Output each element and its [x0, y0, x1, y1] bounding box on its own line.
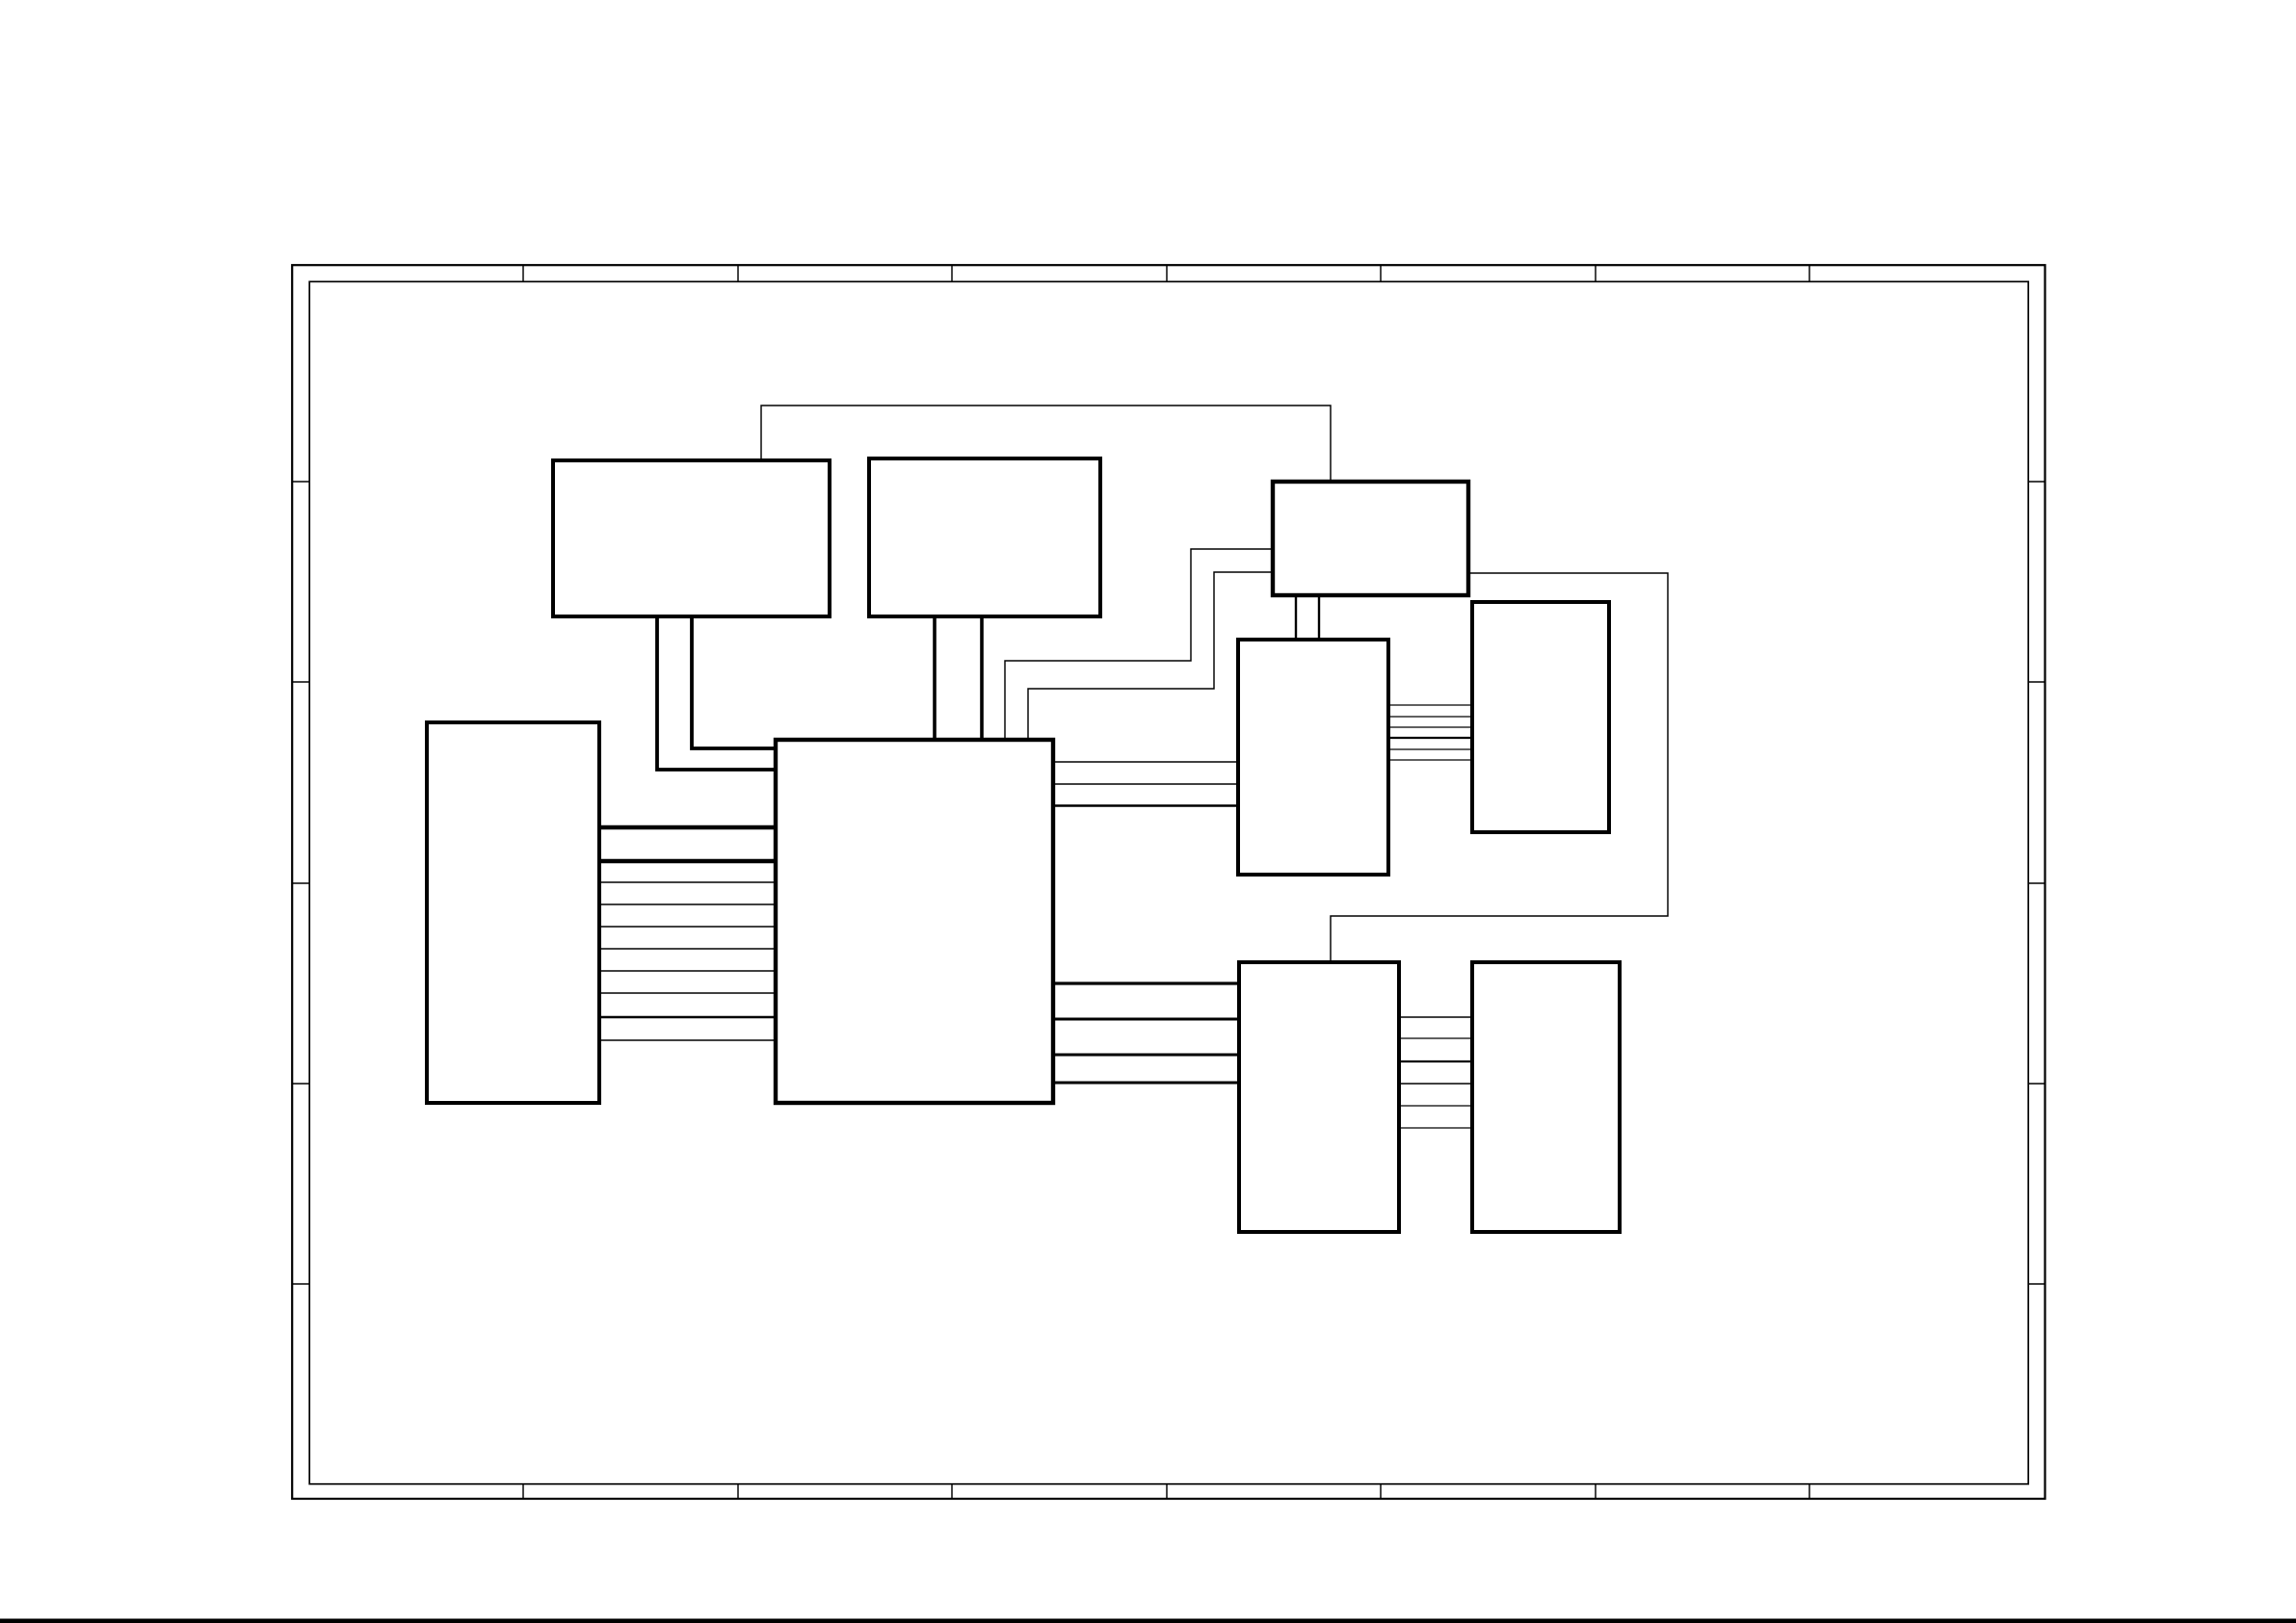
wire I-J 6 — [1399, 1127, 1472, 1129]
wire I-J 5 — [1399, 1105, 1472, 1107]
wire G-H 5 — [1388, 748, 1472, 750]
wire G-H 3 — [1388, 726, 1472, 728]
wire C-D 2 — [599, 859, 776, 863]
wire I-J 2 — [1399, 1037, 1472, 1039]
wire C-D 9 — [599, 1016, 776, 1019]
wire: block D right to block I left 4 — [1053, 1082, 1239, 1085]
bottom page rule — [0, 1619, 2296, 1623]
wire G-H 1 — [1388, 704, 1472, 706]
block F (upper-right small module) — [1273, 482, 1468, 595]
frame zone tick marks bottom edge — [523, 1483, 1809, 1499]
wire: block A bottom left to block D left side — [657, 616, 776, 770]
wire I-J 1 — [1399, 1016, 1472, 1018]
block D (central large module) — [776, 740, 1053, 1103]
block B (top-middle module) — [869, 458, 1100, 616]
frame zone tick marks right edge — [2028, 482, 2045, 1284]
wire: block D right to block G left 2 — [1053, 783, 1238, 785]
wire: block D right to block I left 1 — [1053, 982, 1239, 984]
wire I-J 3 (thick) — [1399, 1060, 1472, 1062]
wire: block D right to block G left 3 (thick) — [1053, 804, 1238, 807]
block J (bottom-right module) — [1472, 962, 1620, 1232]
wire: block B bottom right to block D top — [980, 616, 984, 740]
wire C-D 6 — [599, 948, 776, 950]
wire: block B bottom left to block D top — [933, 616, 937, 740]
wire: net from block F right around block H down to block I top — [1331, 573, 1668, 962]
wire G-H 2 — [1388, 716, 1472, 718]
block G (mid-right module) — [1238, 640, 1388, 875]
wire: block A bottom right to block D left side — [692, 616, 776, 748]
block I (bottom-middle module) — [1239, 962, 1399, 1232]
wire C-D 10 — [599, 1039, 776, 1041]
wire I-J 4 — [1399, 1083, 1472, 1085]
sheet frame inner border — [309, 281, 2028, 1483]
wire: block D right to block G left 1 — [1053, 761, 1238, 763]
wire C-D 1 — [599, 825, 776, 829]
wire: block F bottom to block G top right — [1318, 595, 1320, 640]
wire: block D right to block I left 3 — [1053, 1054, 1239, 1057]
block C (left tall module) — [427, 722, 599, 1103]
wire: stair net from block F left to block D top (outer) — [1005, 549, 1273, 740]
frame zone tick marks left edge — [292, 482, 309, 1284]
bus wires between block I and block J — [1399, 1017, 1472, 1128]
wire C-D 8 — [599, 992, 776, 994]
wire: long net from block A top to block F top — [761, 406, 1331, 482]
wire G-H 6 — [1388, 759, 1472, 761]
bus wires between block C and block D — [599, 827, 776, 1040]
wire: block F bottom to block G top left — [1295, 595, 1297, 640]
block A (top-left module) — [553, 460, 830, 616]
wire: block D right to block I left 2 — [1053, 1018, 1239, 1021]
sheet frame outer border — [292, 265, 2045, 1499]
bus wires between block G and block H — [1388, 705, 1472, 760]
wire: stair net from block F left to block D top (inner) — [1028, 572, 1273, 740]
wire C-D 3 — [599, 881, 776, 883]
block H (right module) — [1472, 602, 1609, 832]
wire C-D 5 — [599, 926, 776, 928]
wire C-D 7 — [599, 970, 776, 972]
wire G-H 4 (thick) — [1388, 737, 1472, 739]
frame zone tick marks top edge — [523, 265, 1809, 281]
wire C-D 4 — [599, 903, 776, 905]
